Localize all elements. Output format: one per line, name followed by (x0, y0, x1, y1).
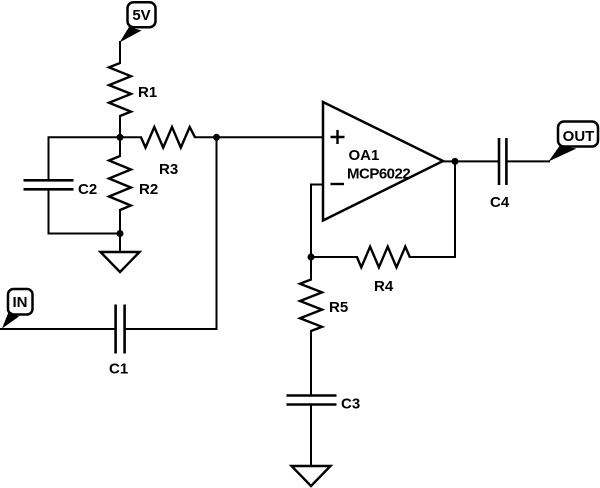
svg-text:C1: C1 (109, 361, 128, 378)
svg-text:R5: R5 (329, 299, 348, 316)
resistor R5 (300, 257, 348, 396)
svg-text:C2: C2 (78, 181, 97, 198)
node A : R1/R2/R3/C2 junction (117, 134, 124, 141)
resistor R1 (109, 63, 157, 137)
wire IN to C1 (0, 328, 116, 330)
node D : R4/R5/- junction (308, 254, 315, 261)
wire R4 to output node E (409, 161, 455, 257)
svg-text:R1: R1 (138, 84, 157, 101)
svg-text:C3: C3 (341, 396, 360, 413)
input flag IN (2, 289, 33, 329)
svg-text:IN: IN (13, 294, 28, 311)
wire C4 to OUT (505, 160, 550, 162)
svg-text:C4: C4 (490, 194, 510, 211)
wire node C to op-amp + input (217, 136, 325, 138)
resistor R2 (109, 137, 158, 233)
svg-text:OA1: OA1 (349, 147, 380, 164)
svg-text:MCP6022: MCP6022 (347, 166, 410, 183)
resistor R4 (311, 247, 410, 295)
capacitor C1 (109, 305, 128, 378)
power flag 5V (120, 2, 156, 42)
output flag OUT (549, 122, 599, 162)
resistor R3 (120, 127, 217, 178)
capacitor C2 (24, 180, 98, 198)
wire op-amp output to node E (442, 160, 455, 162)
ground (bottom) (292, 466, 331, 486)
wire node A to C2 top (49, 137, 121, 181)
svg-text:5V: 5V (132, 7, 150, 24)
wire op-amp - input to node D (311, 185, 324, 258)
node B : R2/C2/ground junction (117, 230, 124, 237)
wire node E to C4 (455, 160, 500, 162)
op-amp OA1 MCP6022 (323, 102, 443, 221)
svg-text:R3: R3 (159, 161, 178, 178)
wire C2 bottom to node B (49, 189, 121, 234)
svg-text:R4: R4 (374, 278, 394, 295)
node E : output junction (452, 158, 459, 165)
wire node B to ground (119, 234, 121, 254)
capacitor C3 (287, 396, 361, 413)
wire C1 to node C (125, 137, 217, 329)
wire 5V to R1 (119, 41, 121, 64)
capacitor C4 (490, 138, 510, 211)
ground (left) (101, 252, 140, 272)
node C : R3/op-amp/C1 junction (213, 134, 220, 141)
wire C3 to ground (310, 404, 312, 467)
svg-text:R2: R2 (139, 181, 158, 198)
svg-text:OUT: OUT (563, 128, 595, 145)
